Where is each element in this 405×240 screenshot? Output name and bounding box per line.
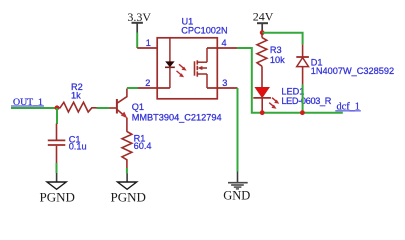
wire C1 to PGND (56, 163, 58, 173)
capacitor C1 (48, 124, 87, 164)
wire Q1 collector to U1 pin2 (127, 87, 138, 89)
body (157, 38, 217, 99)
svg-text:60.4: 60.4 (134, 141, 152, 151)
junction node LED1 bottom (260, 110, 265, 115)
svg-text:GND: GND (223, 189, 250, 203)
wire R3 to LED1 (261, 66, 263, 87)
LED LED1 (253, 87, 331, 113)
svg-text:24V: 24V (253, 10, 274, 24)
wire D1 to dcf node (302, 85, 304, 113)
power 3.3V (127, 10, 151, 32)
node OUT_1 (11, 97, 44, 108)
svg-text:LED-0603_R: LED-0603_R (281, 96, 331, 106)
svg-text:R3: R3 (270, 45, 282, 55)
transistor Q1 (109, 89, 222, 132)
svg-text:1N4007W_C328592: 1N4007W_C328592 (311, 66, 394, 76)
svg-text:4: 4 (222, 38, 227, 48)
internal MOSFET (194, 61, 196, 75)
diode D1 (296, 45, 394, 85)
pin 2 lead (138, 87, 170, 89)
svg-text:MMBT3904_C212794: MMBT3904_C212794 (132, 113, 222, 123)
svg-text:1: 1 (146, 38, 151, 48)
svg-text:PGND: PGND (111, 189, 146, 204)
junction node at R2/C1 (55, 105, 60, 110)
svg-text:1k: 1k (71, 90, 81, 100)
wire 24V junction to D1 (262, 33, 302, 45)
ground GND (223, 172, 250, 203)
wire 3.3V to U1 pin1 (136, 33, 138, 49)
pin 3 lead (207, 87, 238, 89)
wire OUT_1 horizontal (11, 107, 57, 109)
svg-text:PGND: PGND (40, 189, 75, 204)
op-amp U1 CPC1002N optocoupler (137, 17, 237, 99)
pin 4 lead (207, 47, 237, 49)
internal light arrows (179, 64, 184, 69)
svg-text:Q1: Q1 (132, 102, 144, 112)
power 24V (253, 10, 274, 31)
pin 1 lead (137, 47, 157, 49)
wire U1 pin3 to GND (237, 88, 239, 172)
resistor R1 (122, 132, 151, 169)
svg-text:10k: 10k (270, 55, 285, 65)
svg-text:3: 3 (222, 78, 227, 88)
resistor R3 (257, 33, 285, 66)
svg-text:0.1u: 0.1u (69, 142, 87, 152)
junction node 24V (260, 30, 265, 35)
ground PGND (right) (111, 174, 146, 205)
wire R2 to Q1 base (97, 107, 110, 109)
svg-text:CPC1002N: CPC1002N (181, 26, 227, 36)
resistor R2 (58, 82, 97, 112)
wire U1 pin4 to dcf node (237, 48, 343, 113)
node dcf_1 (335, 102, 361, 113)
svg-text:2: 2 (145, 78, 150, 88)
internal LED (169, 38, 171, 62)
wire junction to C1 (56, 108, 58, 124)
wire R1 to PGND (126, 168, 128, 174)
ground PGND (left) (40, 173, 75, 204)
junction node D1 bottom (300, 110, 305, 115)
